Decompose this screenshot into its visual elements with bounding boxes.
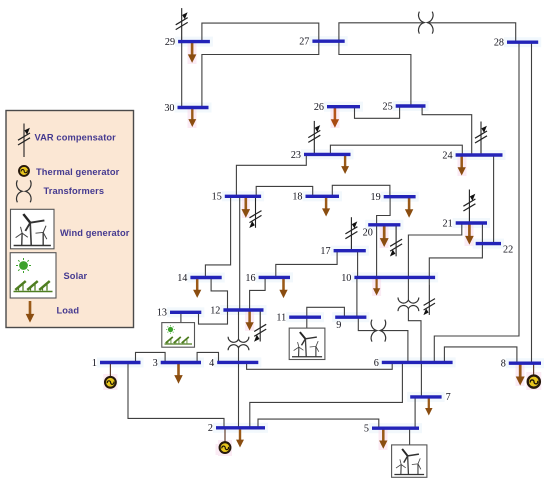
svg-text:Load: Load: [57, 306, 80, 316]
svg-text:10: 10: [341, 273, 351, 284]
wire 5-wind: [409, 428, 411, 445]
load at bus 23: [341, 154, 349, 174]
wire 27-25: [339, 41, 411, 106]
bus 8 bar: [501, 359, 541, 370]
VAR compensator at bus 29: [176, 8, 188, 42]
thermal generator G8 at bus 8: [533, 363, 535, 375]
bus 23 bar: [291, 150, 351, 161]
load at bus 24: [458, 155, 466, 176]
svg-text:5: 5: [364, 424, 369, 435]
soft pink glows: [103, 43, 541, 456]
svg-text:8: 8: [501, 359, 506, 370]
VAR compensator at bus 20: [390, 225, 402, 257]
load at bus 20: [380, 225, 389, 247]
bus 2 bar: [208, 423, 265, 434]
wire 14-12: [211, 278, 227, 311]
svg-text:19: 19: [371, 192, 381, 203]
thermal generator G2 at bus 2: [224, 428, 226, 442]
svg-text:20: 20: [363, 227, 373, 238]
svg-text:VAR compensator: VAR compensator: [35, 132, 117, 142]
load at bus 12: [245, 310, 253, 331]
wire 20-10: [376, 225, 378, 278]
legend box: [6, 111, 134, 328]
load at bus 5: [379, 428, 387, 449]
wire 19-20: [377, 197, 391, 225]
wire 21-10: [408, 223, 461, 277]
svg-text:1: 1: [92, 358, 97, 369]
wire 13-solar: [180, 312, 182, 322]
legend solar symbol: [10, 253, 56, 298]
wire 4-6: [247, 362, 393, 369]
bus 6 bar: [374, 358, 453, 369]
legend VAR compensator symbol: [18, 124, 30, 158]
soft halos: [97, 36, 544, 433]
legend transformer symbol: [17, 180, 32, 202]
svg-text:15: 15: [212, 192, 222, 203]
svg-text:27: 27: [299, 37, 309, 48]
bus 28 bar: [494, 38, 538, 49]
wire 29-30: [181, 42, 183, 108]
bus 11 bar: [276, 313, 321, 324]
load at bus 21: [465, 223, 474, 245]
bus 16 bar: [245, 273, 290, 284]
bus 15 bar: [212, 192, 261, 203]
wire 29-27: [202, 23, 319, 41]
load at bus 10: [373, 277, 380, 295]
load at bus 3: [174, 363, 183, 384]
wire 10-9: [356, 277, 358, 317]
wire 27-28 right seg: [428, 23, 516, 42]
load at bus 16: [279, 277, 287, 298]
wire 23-24: [330, 145, 462, 155]
wire 27-30: [202, 41, 319, 107]
svg-text:11: 11: [276, 313, 286, 324]
load at bus 2: [236, 428, 244, 448]
wire 11-wind: [306, 317, 308, 328]
svg-text:30: 30: [164, 103, 174, 114]
load at bus 8: [516, 363, 525, 385]
bus 9 bar: [335, 317, 366, 331]
bus 17 bar: [320, 246, 365, 257]
wire 23-15: [236, 154, 306, 196]
wind generator box at bus 5: [392, 445, 427, 477]
svg-text:Transformers: Transformers: [44, 186, 105, 196]
wire 3-4: [197, 352, 218, 362]
VAR compensator at bus 17: [345, 217, 357, 251]
svg-text:24: 24: [442, 150, 452, 161]
solar unit at bus 13: [162, 323, 195, 348]
wire 15-12: [239, 196, 241, 310]
wire 15-18: [256, 186, 313, 196]
wire 16-12: [250, 277, 266, 310]
svg-text:18: 18: [292, 192, 302, 203]
svg-text:16: 16: [245, 273, 255, 284]
wire 2-5: [258, 419, 379, 428]
svg-text:7: 7: [446, 392, 451, 403]
bus 22 bar: [476, 244, 513, 256]
wire 25-24: [422, 106, 472, 155]
wire 28-8: [531, 42, 533, 363]
wire 6-8: [444, 347, 517, 363]
legend wind generator symbol: [11, 209, 55, 249]
transformer T10-6: [398, 298, 419, 312]
svg-text:21: 21: [443, 218, 453, 229]
svg-text:23: 23: [291, 150, 301, 161]
legend thermal generator symbol: [19, 166, 29, 176]
wire 27-28 left seg: [339, 23, 424, 41]
bus 1 bar: [92, 358, 141, 369]
svg-text:29: 29: [165, 37, 175, 48]
load at bus 29: [188, 42, 197, 63]
bus 29 bar: [165, 37, 210, 48]
bus 24 bar: [442, 150, 502, 161]
svg-text:13: 13: [157, 308, 167, 319]
svg-text:Wind generator: Wind generator: [60, 228, 130, 238]
wire 10-var stem: [428, 277, 430, 285]
VAR compensator at bus 23: [308, 121, 320, 155]
legend load symbol: [26, 301, 35, 323]
svg-text:17: 17: [320, 246, 330, 257]
bus 18 bar: [292, 192, 339, 203]
svg-text:4: 4: [209, 358, 214, 369]
wire 18-19: [332, 185, 390, 196]
bus 26 bar: [314, 102, 360, 113]
bus 12 bar: [210, 305, 263, 316]
transformer T27-28: [419, 12, 434, 34]
load at bus 19: [405, 197, 413, 218]
wire 7-5: [414, 397, 416, 428]
svg-text:Solar: Solar: [64, 271, 88, 281]
wire 10-6 upper: [407, 277, 409, 300]
bus 27 bar: [299, 37, 344, 48]
svg-text:6: 6: [374, 358, 379, 369]
wire 12-4 lower: [238, 347, 240, 362]
wire 10-6 lower: [408, 308, 421, 362]
svg-text:Thermal generator: Thermal generator: [36, 167, 120, 177]
wire 15-14: [205, 196, 230, 277]
wire 10-22: [429, 244, 482, 278]
svg-text:22: 22: [503, 245, 513, 256]
svg-text:26: 26: [314, 102, 324, 113]
svg-text:2: 2: [208, 423, 213, 434]
VAR compensator at bus 24: [475, 122, 487, 156]
svg-text:9: 9: [336, 320, 341, 331]
bus 30 bar: [164, 103, 208, 114]
wire 11-9: [307, 307, 345, 317]
bus 14 bar: [177, 273, 221, 284]
load at bus 14: [193, 278, 201, 298]
wire 28-6: [434, 42, 519, 362]
wire 13-12: [199, 310, 228, 324]
bus 10 bar: [341, 273, 435, 284]
wire 9-6 left seg: [358, 317, 377, 330]
bus 20 bar: [363, 225, 401, 239]
bus 13 bar: [157, 308, 201, 319]
bus 25 bar: [383, 101, 426, 112]
bus 4 bar: [209, 358, 258, 369]
bus 19 bar: [371, 192, 416, 203]
transformer T9-6: [371, 320, 386, 342]
wire 24-22: [493, 155, 495, 244]
transformer T4-12: [228, 337, 249, 351]
wire 12-4 upper: [238, 310, 240, 340]
wire 21-22: [481, 223, 483, 244]
svg-text:28: 28: [494, 38, 504, 49]
load at bus 18: [322, 196, 330, 216]
load at bus 15: [241, 196, 250, 217]
bus 21 bar: [443, 218, 487, 229]
wire 16-17: [276, 251, 337, 278]
svg-text:14: 14: [177, 273, 187, 284]
wire 1-3: [136, 352, 166, 362]
VAR compensator at bus 15: [249, 196, 261, 228]
bus 5 bar: [364, 424, 419, 435]
wire 2-6: [250, 362, 403, 427]
svg-text:25: 25: [383, 101, 393, 112]
wire 6-7: [420, 362, 422, 397]
wire 4-2: [238, 362, 240, 427]
load at bus 26: [331, 107, 339, 128]
thermal generator G1 at bus 1: [109, 363, 111, 377]
wire 26-25: [355, 106, 400, 118]
bus 7 bar: [410, 392, 450, 403]
load at bus 7: [425, 397, 432, 416]
wind generator box at bus 11: [289, 328, 325, 359]
VAR compensator at bus 10: [423, 285, 435, 315]
svg-text:12: 12: [210, 305, 220, 316]
VAR compensator at bus 12: [254, 310, 266, 342]
wire 1-2: [128, 363, 224, 428]
svg-text:3: 3: [153, 358, 158, 369]
bus 3 bar: [153, 358, 201, 369]
load at bus 30: [188, 108, 196, 128]
wire 9-6 right seg: [380, 331, 408, 363]
wire 10-17: [357, 251, 359, 278]
VAR compensator at bus 21: [463, 190, 475, 224]
